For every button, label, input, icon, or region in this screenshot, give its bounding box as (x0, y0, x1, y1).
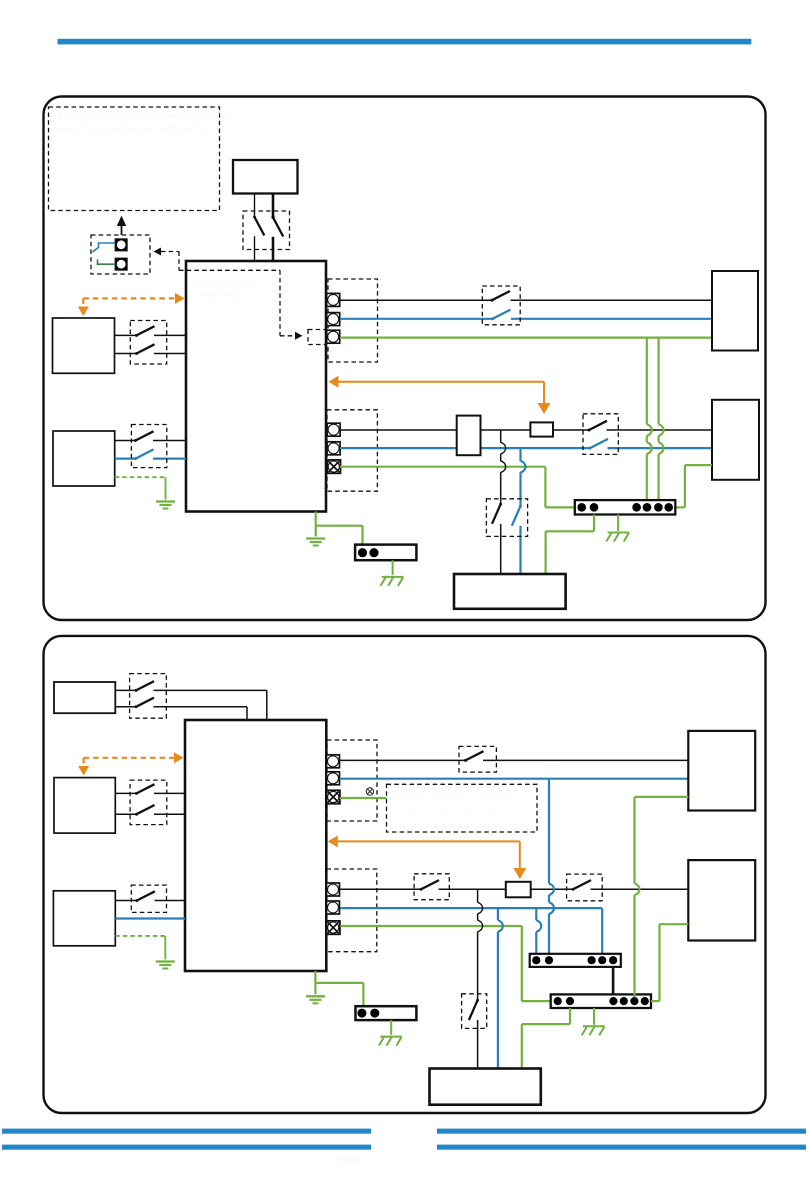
hop2 L over N (478, 902, 483, 914)
GB1 lug 4 (643, 503, 652, 512)
wire grid-N drop (blue) (548, 779, 550, 884)
wire load2-L seg2 (439, 888, 574, 890)
neutral busbar NB1 (530, 954, 621, 967)
earth symbol E5 (156, 960, 175, 962)
terminal N (grid-port) (327, 772, 340, 785)
NB1 lug 5 (609, 956, 617, 964)
orange solid arrow (backup route) (329, 376, 339, 388)
footer rule right top (437, 1129, 806, 1134)
breaker box QF13 (dashed) (462, 994, 487, 1029)
earth symbol E6 (hatched) (583, 1025, 605, 1027)
wire drop L (black) (500, 430, 502, 443)
GB3 earth stub (593, 1008, 595, 1025)
breaker box QF6 (dashed) (486, 499, 527, 537)
hop2 N1 over PE (536, 920, 541, 932)
switch QF8a (135, 792, 138, 795)
no-connection symbol (366, 788, 373, 795)
GB3 lug 1 (554, 997, 562, 1005)
wire drop2 L (black) (477, 889, 479, 902)
dashed target box at PE terminal (308, 330, 326, 345)
GB3 lug 3 (609, 997, 617, 1005)
wire PV1- left (115, 353, 137, 355)
GB1 lug 2 (590, 503, 599, 512)
switch QF1a (gen breaker pole 1) (253, 216, 256, 219)
terminal PE (gen-port) (327, 330, 340, 343)
hop grid-N over L (549, 884, 554, 896)
hop PE1 over N (647, 442, 652, 454)
orange dashed arrow 2 (PV route) (84, 757, 175, 759)
sensor terminal box (dashed) (91, 235, 150, 274)
breaker box QF10 (dashed) (459, 746, 496, 772)
earth symbol E2 (hatched) (608, 532, 630, 534)
wire PV2+ left (115, 792, 136, 794)
battery PE drop (165, 477, 167, 499)
grid box GRID1 (712, 271, 758, 351)
GB2 lug 2 (369, 548, 378, 557)
wire PV2+ right (154, 792, 185, 794)
terminal PE (grid-port, X) (327, 790, 340, 803)
generator box G2 (54, 682, 115, 713)
wire PV1- right (154, 353, 186, 355)
earth symbol E8 (hatched) (380, 1036, 402, 1038)
hop grid-N over N (549, 902, 554, 914)
breaker box QF11 (dashed) (414, 874, 449, 900)
GB1 lug 1 (577, 503, 586, 512)
hop PE2 over N (659, 442, 664, 454)
terminal N (gen-port) (327, 313, 340, 326)
NB1 lug 1 (532, 956, 540, 964)
terminal T1 (black square) (115, 239, 127, 251)
inverter PE (green) (315, 512, 317, 526)
wire G1-N to breaker (272, 194, 275, 218)
svg-text:single phase: single phase (196, 290, 247, 300)
wire PV1+ right (154, 334, 186, 336)
wire BAT2+ right (155, 900, 186, 902)
panel 2 border frame (44, 636, 766, 1113)
breaker box QF3 (dashed) (131, 425, 166, 468)
CT clamp CT1 (530, 422, 553, 436)
wire PV2- right (154, 813, 185, 815)
footer rule left top (2, 1129, 371, 1134)
load box LOAD2 (430, 1069, 541, 1105)
hop PE2 over L (659, 424, 664, 436)
GB1 lug 3 (632, 503, 641, 512)
wire G2-b left (115, 706, 136, 708)
earth symbol E4 (hatched) (382, 576, 404, 578)
switch QF2a (135, 334, 138, 337)
blue sensor lead (93, 243, 116, 252)
GB1 lug 6 (664, 503, 673, 512)
wire grid-N (blue) (340, 778, 689, 780)
svg-text:jumpers on inverter terminal b: jumpers on inverter terminal block first (57, 123, 211, 133)
svg-text:If the generator connect pleas: If the generator connect please remove t… (58, 111, 230, 121)
switch QF5a (588, 429, 591, 432)
grid box GRID2 (712, 400, 759, 480)
switch QF5b (blue) (589, 447, 592, 450)
busbar link wire (black) (612, 967, 615, 995)
orange solid arrow 2 (backup route) (328, 835, 338, 847)
PE drop 1 (green) (646, 338, 648, 425)
header rule (blue bar) (58, 39, 752, 45)
terminal L (gen-port) (327, 293, 340, 306)
hop2 N over PE (498, 920, 503, 932)
switch QF13 (vertical) (476, 999, 479, 1002)
wire load2-N corner drop (blue) (601, 908, 603, 956)
battery PE dashed wire (115, 476, 166, 478)
GB4 lug 1 (357, 1009, 366, 1018)
wire grid-PE stub (green) (340, 797, 387, 799)
inverter box INV2 (185, 720, 326, 971)
footer rule left bottom (2, 1145, 371, 1150)
hop grid3-PE over L (635, 884, 640, 896)
terminal N (load) (327, 442, 340, 455)
wire G2-a to inverter (154, 689, 267, 691)
wire G1-L to breaker (254, 194, 256, 218)
terminal PE (load2, X) (327, 921, 340, 934)
breaker box QF5 (dashed) (583, 414, 618, 455)
GB3 lug 2 (566, 997, 574, 1005)
wire N to busbar lug1 (blue) (535, 908, 537, 920)
footer rule right bottom (437, 1145, 806, 1150)
terminal L (load) (327, 423, 340, 436)
wire drop2 N (blue) (497, 908, 499, 920)
wire load-L (340, 429, 589, 431)
switch QF6b (vertical blue) (519, 505, 522, 508)
switch QF3a (134, 439, 137, 442)
hop PE1 over L (647, 424, 652, 436)
terminal T2 (black square) (115, 258, 127, 270)
PV box P1 (53, 318, 115, 373)
NB1 lug 2 (545, 956, 553, 964)
note box N1 (dashed, top-left) (49, 107, 220, 211)
wire BAT1+ right (153, 440, 186, 442)
NB1 lug 4 (598, 956, 606, 964)
switch QF8b (135, 813, 138, 816)
GB2 lug 1 (358, 548, 367, 557)
inverter box INV1 (186, 261, 326, 512)
ground busbar GB4 (356, 1006, 417, 1020)
breaker box QF2 (dashed) (130, 321, 166, 365)
battery box B2 (53, 891, 115, 946)
earth symbol E1 (156, 500, 175, 502)
switch QF4a (491, 299, 494, 302)
hop L over N (501, 442, 506, 454)
hop L over PE (501, 461, 506, 473)
generator box G1 (233, 160, 298, 194)
hop N over PE (521, 461, 526, 473)
dashed pointer to sensor box (154, 248, 162, 256)
grid4 PE return (green) (660, 923, 689, 925)
switch QF7a (135, 689, 138, 692)
wire PV2- left (115, 813, 136, 815)
wire load-L to grid2 (607, 429, 713, 431)
battery2 PE drop (164, 936, 166, 960)
terminal group TB1 (dashed) (328, 279, 378, 362)
wire G2-a left (115, 689, 136, 691)
NB1 lug 3 (588, 956, 596, 964)
panel 1 border frame (44, 97, 766, 621)
GB1 earth stub (617, 515, 619, 532)
wire drop N (blue) (519, 448, 521, 461)
grid box GRID4 (688, 860, 755, 940)
wire drop N lower (blue) (519, 526, 521, 574)
terminal L (load2) (327, 883, 340, 896)
terminal group TB4 (dashed) (327, 869, 377, 952)
svg-text:The PE of grid port need not: The PE of grid port need not (396, 792, 510, 802)
ground busbar GB3 (551, 994, 651, 1008)
wire N to QF4 (blue) (340, 318, 493, 320)
GB1 to load PE (green) (593, 515, 595, 532)
GB1 lug 5 (654, 503, 663, 512)
breaker box QF4 (dashed) (482, 286, 520, 325)
PE drop 2 (green) (657, 338, 659, 425)
breaker box QF12 (dashed) (567, 874, 603, 901)
wire load-N to grid2 (blue) (608, 447, 713, 449)
wire BAT2+ left (115, 900, 137, 902)
wire G1-N to inverter top (272, 237, 275, 262)
wire load-PE (green) (340, 466, 546, 468)
GB3 lug 4 (620, 997, 628, 1005)
terminal PE (load, X) (327, 460, 340, 473)
grid box GRID3 (688, 731, 755, 811)
breaker box QF8 (dashed) (130, 780, 167, 825)
wire BAT1+ left (115, 440, 136, 442)
dashed path inside inverter (179, 269, 280, 271)
battery box B1 (53, 431, 115, 486)
terminal group TB3 (dashed) (327, 740, 377, 821)
ground busbar GB2 (355, 545, 416, 561)
grid3 PE return (green) (635, 796, 689, 798)
switch QF11 (420, 888, 423, 891)
breaker box QF7 (dashed) (130, 674, 167, 719)
grid2 PE wire (green) (685, 464, 712, 466)
GB3 lug 5 (630, 997, 638, 1005)
wire grid-L (340, 759, 466, 761)
switch QF7b (135, 705, 138, 708)
svg-text:Deye: Deye (338, 1156, 362, 1167)
wire BAT1- left (blue) (115, 458, 136, 460)
GB4 lug 2 (370, 1009, 379, 1018)
wire load2-N (blue) (340, 907, 602, 909)
GB2 earth stub (392, 560, 394, 575)
wire G2-b to inverter (154, 706, 248, 708)
meter box M1 (457, 416, 481, 456)
inverter2 PE (green) (314, 971, 316, 983)
breaker box QF9 (dashed) (131, 885, 166, 912)
wire N to grid1 (blue) (511, 318, 712, 320)
ground busbar GB1 (575, 500, 676, 514)
switch QF10 (464, 759, 467, 762)
wire load-N (blue) (340, 447, 590, 449)
load box LOAD1 (454, 574, 566, 609)
green sensor lead (98, 259, 116, 264)
wire load2-PE (green) (340, 925, 522, 927)
wire load2-L to grid2 (591, 888, 689, 890)
wire load2-L seg1 (340, 888, 421, 890)
wire BAT2- (blue) (115, 917, 185, 919)
GB3 to load PE (green) (569, 1008, 571, 1024)
GB4 earth stub (390, 1020, 392, 1035)
switch QF9 (135, 899, 138, 902)
GB3 lug 6 (641, 997, 649, 1005)
svg-text:Hybrid Inverter: Hybrid Inverter (196, 278, 255, 288)
wire L to grid1 (511, 299, 713, 301)
CT clamp CT2 (506, 882, 531, 898)
terminal group TB2 (dashed) (327, 410, 377, 491)
switch QF1b (gen breaker pole 2) (272, 216, 275, 219)
switch QF12 (572, 888, 575, 891)
earth symbol E3 (306, 537, 325, 539)
wire G1-L to inverter top (254, 236, 256, 261)
arrow up from sensor box (121, 226, 123, 235)
switch QF3b (blue) (134, 457, 137, 460)
hop2 L over PE (478, 920, 483, 932)
wire PV1+ left (115, 334, 137, 336)
orange dashed arrow (PV route) (83, 297, 176, 299)
switch QF6a (vertical) (499, 503, 502, 506)
breaker box QF1 (dashed) (243, 211, 290, 250)
svg-text:be connected to earth bar: be connected to earth bar (396, 804, 499, 814)
wire BAT1- right (blue) (153, 458, 186, 460)
wire grid-L to grid1 (483, 759, 688, 761)
PV box P2 (54, 778, 115, 834)
earth symbol E7 (306, 995, 325, 997)
wire drop L lower (500, 524, 502, 574)
switch QF2b (135, 352, 138, 355)
wire drop2 L lower (477, 1020, 479, 1069)
wire L to QF4 (340, 299, 492, 301)
note box N2 (dashed) (387, 784, 538, 832)
switch QF4b (blue) (491, 317, 494, 320)
wire PE to grid1 (green) (340, 337, 712, 339)
battery2 PE dashed wire (115, 935, 165, 937)
terminal N (load2) (327, 901, 340, 914)
terminal L (grid-port) (327, 755, 340, 768)
